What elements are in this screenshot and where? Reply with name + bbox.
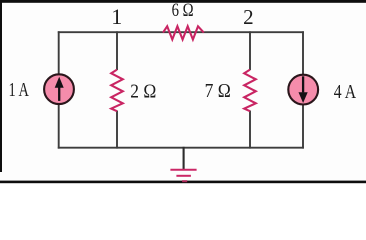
wire: node 2 stub down to 7-ohm resistor — [249, 31, 251, 70]
svg-text:4 A: 4 A — [334, 81, 357, 103]
resistor 7-ohm zigzag (vertical) — [244, 70, 256, 112]
wire: 2-ohm resistor bottom stub to bottom rail — [116, 111, 118, 149]
ground symbol: bottom bar — [182, 180, 187, 182]
svg-text:6 Ω: 6 Ω — [172, 0, 194, 21]
svg-text:1 A: 1 A — [9, 79, 30, 101]
svg-text:2 Ω: 2 Ω — [130, 81, 156, 103]
current source 1A: circle with upward arrow — [44, 74, 74, 104]
current source 4A: circle with downward arrow — [288, 75, 318, 105]
wire: ground stem below bottom rail — [183, 147, 185, 170]
wire: right branch vertical through 4A source — [302, 31, 304, 148]
svg-text:7 Ω: 7 Ω — [205, 80, 231, 102]
svg-text:1: 1 — [111, 4, 122, 29]
wire: left branch vertical through 1A source — [58, 31, 60, 148]
wire: bottom rail — [58, 147, 304, 149]
ground symbol: middle bar — [176, 175, 191, 177]
svg-text:2: 2 — [243, 5, 254, 29]
wire: top rail from node above 1A source to node 2 corner — [58, 31, 304, 33]
resistor 6-ohm zigzag (horizontal, top) — [163, 26, 204, 39]
wire: node 1 stub down to 2-ohm resistor — [116, 31, 118, 70]
resistor 2-ohm zigzag (vertical) — [111, 70, 123, 112]
ground symbol: top bar — [170, 169, 196, 171]
wire: 7-ohm resistor bottom stub to bottom rail — [249, 111, 251, 149]
